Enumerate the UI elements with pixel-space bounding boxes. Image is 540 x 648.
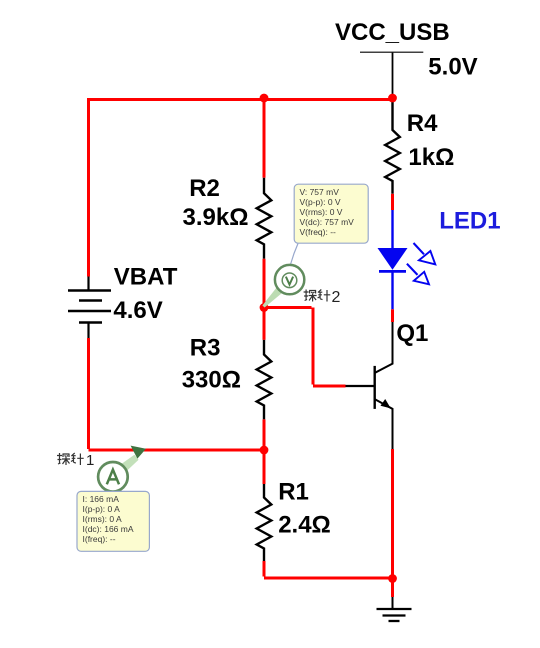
wire red emitter to ground rail xyxy=(391,449,394,597)
label VCC_USB xyxy=(335,19,450,46)
svg-text:I(p-p): 0 A: I(p-p): 0 A xyxy=(83,504,121,514)
label R4 xyxy=(407,110,438,137)
wire middle vertical top xyxy=(263,98,266,178)
LED emission arrow 1 xyxy=(414,243,436,264)
junction node bottom right xyxy=(388,574,397,583)
svg-text:R3: R3 xyxy=(190,335,221,362)
value 5.0V xyxy=(428,54,477,81)
wire red LED to Q1 xyxy=(391,309,394,322)
resistor R4 xyxy=(385,98,400,194)
svg-text:V(rms): 0 V: V(rms): 0 V xyxy=(300,207,343,217)
svg-text:V(p-p): 0 V: V(p-p): 0 V xyxy=(300,197,341,207)
label R1 xyxy=(278,478,309,505)
svg-text:5.0V: 5.0V xyxy=(428,54,477,81)
junction node V-probe xyxy=(260,303,269,312)
value 4.6V xyxy=(113,297,162,324)
svg-text:2: 2 xyxy=(332,289,341,306)
wire left vertical upper xyxy=(87,98,90,277)
label LED1 xyxy=(439,207,500,234)
svg-text:V(dc): 757 mV: V(dc): 757 mV xyxy=(300,217,355,227)
svg-text:1: 1 xyxy=(86,452,94,469)
probe A (current probe) xyxy=(98,446,146,492)
svg-text:LED1: LED1 xyxy=(439,207,500,234)
svg-text:330Ω: 330Ω xyxy=(182,367,241,394)
svg-text:V: 757 mV: V: 757 mV xyxy=(300,187,340,197)
LED D1 xyxy=(378,210,408,309)
svg-text:4.6V: 4.6V xyxy=(113,297,162,324)
svg-text:I(freq): --: I(freq): -- xyxy=(83,534,116,544)
svg-text:VCC_USB: VCC_USB xyxy=(335,19,450,46)
transistor Q1 xyxy=(375,322,393,449)
wire red R4 to LED xyxy=(391,194,394,210)
svg-text:Q1: Q1 xyxy=(396,320,428,347)
value 2.4ohm xyxy=(278,512,331,539)
svg-text:R2: R2 xyxy=(189,175,220,202)
svg-text:1kΩ: 1kΩ xyxy=(408,144,454,171)
wire top horizontal xyxy=(89,98,393,101)
wire middle R2 to node xyxy=(263,259,266,340)
wire middle R3 to node xyxy=(263,419,266,484)
label Q1 xyxy=(396,320,428,347)
label R3 xyxy=(190,335,221,362)
probe label 探针1 xyxy=(57,453,70,465)
resistor R1 xyxy=(257,484,272,561)
svg-text:I(dc): 166 mA: I(dc): 166 mA xyxy=(83,524,134,534)
svg-text:R1: R1 xyxy=(278,478,309,505)
junction node top middle xyxy=(260,94,269,103)
svg-text:2.4Ω: 2.4Ω xyxy=(278,512,331,539)
LED emission arrow 2 xyxy=(407,264,429,285)
tooltip V-probe xyxy=(294,184,368,243)
wire middle bottom xyxy=(264,561,393,578)
probe label 探针2 xyxy=(304,290,317,302)
probe V (magnifier) xyxy=(262,265,304,308)
power rail VCC_USB xyxy=(360,52,423,98)
value 3.9kohm xyxy=(183,204,249,231)
svg-text:VBAT: VBAT xyxy=(114,264,178,291)
battery VBAT xyxy=(68,277,111,339)
tooltip connector line V-probe xyxy=(290,244,298,267)
svg-text:R4: R4 xyxy=(407,110,438,137)
ground xyxy=(377,597,412,621)
wire base branch xyxy=(264,308,346,387)
label VBAT xyxy=(114,264,178,291)
svg-text:I: 166 mA: I: 166 mA xyxy=(83,494,120,504)
svg-text:3.9kΩ: 3.9kΩ xyxy=(183,204,249,231)
resistor R2 xyxy=(257,178,272,259)
value 1kohm xyxy=(408,144,454,171)
label R2 xyxy=(189,175,220,202)
junction node left-mid xyxy=(260,446,269,455)
svg-text:V(freq): --: V(freq): -- xyxy=(300,227,337,237)
resistor R3 xyxy=(257,340,272,420)
value 330ohm xyxy=(182,367,241,394)
svg-text:I(rms): 0 A: I(rms): 0 A xyxy=(83,514,123,524)
wire base lead black xyxy=(346,385,375,387)
tooltip A-probe xyxy=(77,491,149,551)
junction node top right xyxy=(388,94,397,103)
wire left vertical lower xyxy=(89,338,265,450)
